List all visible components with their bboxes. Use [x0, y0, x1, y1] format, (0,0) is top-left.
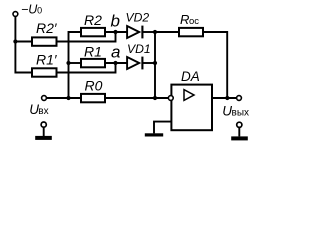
- svg-text:DA: DA: [181, 69, 200, 84]
- junction input/R0: [66, 96, 70, 100]
- terminal Uvx: [42, 96, 47, 101]
- junction summing/VD2: [153, 30, 157, 34]
- svg-text:R2: R2: [84, 12, 102, 28]
- wire left rail: [15, 16, 32, 72]
- svg-text:a: a: [111, 42, 120, 61]
- svg-text:R1′: R1′: [36, 52, 58, 68]
- resistor R2: [81, 12, 105, 37]
- svg-text:вх: вх: [38, 106, 48, 117]
- svg-text:ос: ос: [189, 16, 199, 27]
- wire summing to Roc: [155, 31, 179, 33]
- wire summing column: [154, 32, 156, 98]
- wire VD1 to summing node: [143, 62, 155, 64]
- wire Roc to output (feedback): [203, 32, 227, 98]
- svg-text:R0: R0: [85, 78, 103, 94]
- wire R1' to node a: [57, 63, 116, 73]
- svg-text:R2′: R2′: [36, 20, 58, 36]
- svg-text:−U: −U: [21, 3, 38, 17]
- wire op-amp output: [212, 97, 237, 99]
- wire non-inverting input to ground: [154, 122, 171, 134]
- diode VD2: [126, 10, 150, 38]
- resistor R1': [32, 52, 58, 77]
- label -U0: [21, 3, 42, 17]
- svg-text:вых: вых: [232, 108, 250, 119]
- svg-text:b: b: [111, 11, 120, 30]
- node b: [111, 11, 120, 34]
- op-amp DA: [171, 69, 212, 130]
- wire R2' to node b: [57, 32, 116, 42]
- ground terminal input: [35, 122, 52, 140]
- svg-text:R1: R1: [84, 43, 102, 59]
- wire input to R1: [69, 62, 82, 64]
- terminal Uvyx: [237, 96, 242, 101]
- resistor Roc: [179, 12, 203, 36]
- svg-text:VD1: VD1: [127, 42, 151, 56]
- ground op-amp: [145, 133, 163, 136]
- resistor R2': [32, 20, 58, 46]
- op-amp inverting input circle: [168, 96, 173, 101]
- wire rail to R2': [15, 41, 32, 43]
- ground terminal output: [231, 122, 248, 140]
- wire R0 to op-amp input: [105, 97, 168, 99]
- junction summing/R0: [153, 96, 157, 100]
- junction output/feedback: [225, 96, 229, 100]
- wire VD2 to summing node: [143, 31, 155, 33]
- diode VD1: [127, 42, 151, 70]
- label Uvx: [29, 102, 48, 117]
- wire input column: [69, 32, 82, 98]
- junction input/R1: [66, 61, 70, 65]
- node a: [111, 42, 120, 65]
- junction rail/R2': [13, 39, 17, 43]
- svg-text:R: R: [180, 12, 189, 27]
- label Uvyx: [222, 104, 249, 119]
- resistor R1: [81, 43, 105, 67]
- terminal -U0: [13, 12, 18, 17]
- svg-text:VD2: VD2: [126, 10, 150, 24]
- wire Uvx to R0: [46, 97, 81, 99]
- svg-text:0: 0: [37, 6, 42, 16]
- wire R2 to VD2: [105, 31, 127, 33]
- junction summing/VD1: [153, 61, 157, 65]
- wire R1 to VD1: [105, 62, 127, 64]
- resistor R0: [81, 78, 105, 103]
